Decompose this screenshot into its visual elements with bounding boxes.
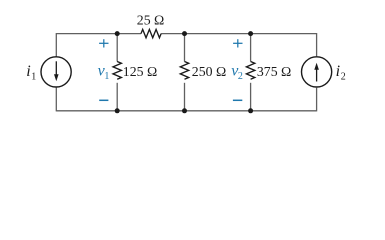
current source i1 [41, 57, 71, 87]
svg-text:2: 2 [341, 71, 346, 82]
resistor 125 Ohm [113, 62, 121, 80]
resistor 25 Ohm (top) [141, 29, 161, 37]
resistor 250 Ohm [180, 62, 188, 80]
wire branch1 upper [116, 34, 118, 62]
label v1 minus [99, 99, 108, 101]
node dot top branch3 [248, 31, 253, 36]
node dot top branch2 [182, 31, 187, 36]
wire branch2 upper [184, 34, 186, 62]
resistor 375 Ohm [246, 62, 254, 80]
label v2 plus [233, 39, 242, 47]
svg-text:1: 1 [31, 71, 36, 82]
wire branch3 upper [250, 34, 252, 62]
wire branch2 lower [184, 83, 186, 111]
wire bottom [56, 110, 316, 112]
svg-text:125 Ω: 125 Ω [123, 64, 157, 79]
node dot bottom branch3 [248, 108, 253, 113]
wire left lower [55, 88, 57, 112]
wire right lower [316, 88, 318, 112]
svg-text:375 Ω: 375 Ω [257, 64, 291, 79]
label v1 plus [99, 39, 108, 47]
wire right upper [316, 33, 318, 56]
i1 arrow (down) [55, 61, 57, 75]
svg-text:i: i [26, 63, 30, 80]
current source i2 [302, 57, 332, 87]
label v2 minus [233, 99, 242, 101]
wire left upper [55, 33, 57, 57]
wire top left segment [56, 33, 141, 35]
wire top right segment [161, 33, 317, 35]
i2 arrow (up) [316, 69, 318, 81]
node dot bottom branch1 [115, 108, 120, 113]
node dot top branch1 [115, 31, 120, 36]
wire branch3 lower [250, 83, 252, 111]
svg-text:2: 2 [238, 71, 243, 82]
svg-text:i: i [336, 63, 340, 80]
node dot bottom branch2 [182, 108, 187, 113]
wire branch1 lower [116, 83, 118, 111]
svg-text:1: 1 [104, 71, 109, 82]
svg-text:250 Ω: 250 Ω [192, 64, 226, 79]
svg-text:25 Ω: 25 Ω [137, 13, 165, 28]
